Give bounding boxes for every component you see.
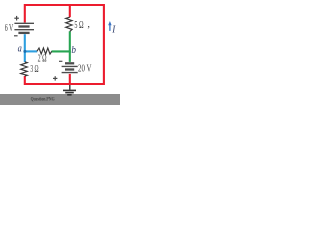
svg-text:6 V: 6 V bbox=[5, 23, 14, 34]
svg-text:Question.PNG: Question.PNG bbox=[31, 98, 55, 103]
gray footer bar bbox=[0, 94, 120, 105]
svg-text:20 V: 20 V bbox=[78, 64, 92, 75]
resistor R3 3 ohm (vertical zigzag) bbox=[21, 62, 28, 76]
current arrow I bbox=[109, 25, 111, 31]
battery V2 20V (right, - top) bbox=[62, 63, 78, 72]
wire: red outer loop with left stubs bbox=[25, 5, 104, 84]
wire: green horizontal 2-ohm resistor to node b bbox=[52, 50, 71, 52]
battery V1 polarity - bbox=[14, 35, 18, 37]
battery V1 6V (left, + top) bbox=[14, 23, 34, 33]
svg-text:b: b bbox=[71, 44, 76, 56]
wire: blue horizontal node a to 2-ohm resistor bbox=[24, 50, 37, 52]
svg-text:5 Ω: 5 Ω bbox=[74, 20, 83, 31]
wire: blue 6V battery bottom through node a to 3-ohm resistor bbox=[24, 34, 26, 62]
battery V1 polarity + bbox=[14, 16, 19, 21]
ground bbox=[63, 85, 76, 95]
wire: red stub top wire to 5-ohm resistor bbox=[69, 6, 71, 17]
svg-text:3 Ω: 3 Ω bbox=[30, 64, 38, 75]
resistor R1 2 ohm (horizontal zigzag) bbox=[37, 48, 52, 54]
svg-text:I: I bbox=[111, 25, 115, 36]
background bbox=[0, 0, 120, 105]
svg-text:,: , bbox=[87, 19, 90, 30]
wire: red stub 20V battery to bottom wire bbox=[69, 74, 71, 84]
resistor R2 5 ohm (vertical zigzag) bbox=[66, 17, 72, 31]
node a junction dot bbox=[23, 50, 26, 53]
battery V2 polarity - bbox=[59, 60, 62, 62]
svg-text:2 Ω: 2 Ω bbox=[38, 53, 47, 64]
svg-text:a: a bbox=[18, 44, 22, 55]
battery V2 polarity + bbox=[53, 76, 57, 80]
wire: green 5-ohm bottom through node b to 20V battery bbox=[69, 31, 71, 62]
